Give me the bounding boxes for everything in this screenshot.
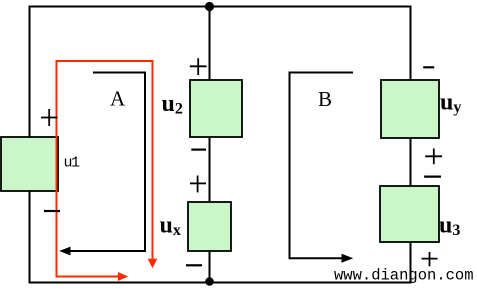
minus sign uy top — [423, 66, 434, 68]
node dot bottom — [205, 277, 214, 286]
wire top: y=6.5 from x=29 to x=411 — [29, 6, 412, 8]
wire middle branch: x=209.5 — [209, 7, 211, 283]
svg-text:u2: u2 — [162, 91, 183, 118]
svg-text:u1: u1 — [64, 155, 81, 172]
svg-text:u3: u3 — [439, 213, 460, 240]
loop B arrowhead right — [342, 254, 354, 263]
plus sign u3 bottom — [422, 252, 438, 266]
loop A black inner indicator path — [70, 73, 145, 252]
svg-text:B: B — [318, 87, 332, 111]
source u1 (box) — [1, 137, 58, 191]
wire right: x=410.5 — [410, 6, 412, 284]
loop A red arrowhead right — [118, 272, 128, 281]
minus sign u2 bottom — [191, 149, 206, 151]
svg-text:www.diangon.com: www.diangon.com — [334, 267, 474, 285]
loop A red arrowhead down — [148, 259, 158, 268]
plus sign u2 top — [190, 58, 207, 75]
svg-text:ux: ux — [160, 213, 181, 240]
svg-text:A: A — [110, 87, 126, 111]
source ux (box) — [188, 202, 231, 251]
loop A black arrowhead left — [59, 247, 70, 256]
wire left: x=29.5 — [29, 6, 31, 284]
svg-text:uy: uy — [440, 90, 461, 117]
minus sign u3 top — [424, 176, 441, 178]
node dot top — [205, 2, 214, 11]
wire bottom: y=282.5 — [29, 282, 412, 284]
source u2 (box) — [190, 80, 242, 137]
source uy (box) — [381, 80, 439, 138]
loop B indicator path — [290, 73, 354, 259]
loop A red indicator path — [57, 61, 153, 277]
minus sign u1 bottom — [44, 210, 60, 212]
plus sign u1 top — [41, 109, 58, 126]
minus sign ux bottom — [186, 264, 202, 266]
plus sign ux top — [190, 176, 206, 193]
source u3 (box) — [380, 186, 439, 242]
plus sign uy bottom — [425, 149, 442, 165]
